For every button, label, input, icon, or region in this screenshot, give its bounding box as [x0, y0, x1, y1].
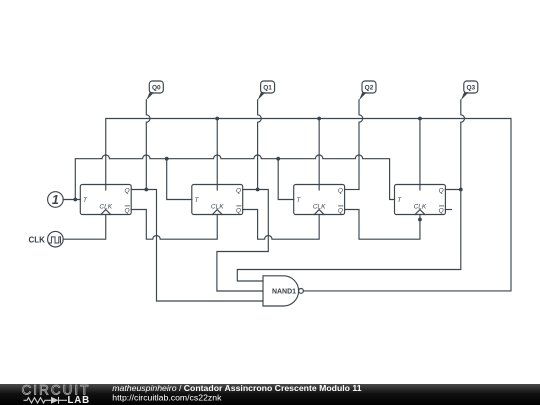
- node dot FF2 top on reset bus: [215, 117, 219, 121]
- wire FF3 Qbar to FF4 clock: [345, 210, 420, 240]
- svg-text:Q: Q: [124, 207, 129, 214]
- wire bus logic-1 (T net, y158.7) with hops: [75, 155, 394, 200]
- wire FF3 Q to Q2 flag: [345, 189, 359, 191]
- svg-text:Q: Q: [338, 207, 343, 214]
- source CLK squarewave: [48, 231, 64, 247]
- node dot FF3 top on reset bus: [317, 117, 321, 121]
- svg-text:Q: Q: [439, 207, 444, 214]
- wire FF4 top riser: [419, 119, 421, 191]
- wire FF2 Qbar to FF3 clock: [243, 210, 319, 240]
- svg-text:Q: Q: [439, 187, 444, 194]
- svg-text:Q: Q: [236, 187, 241, 194]
- wire FF2 top riser: [216, 119, 218, 191]
- node dot FF4 top on reset bus: [418, 117, 422, 121]
- wire FF4 Q to Q3 flag and NAND input C (Q3 net): [237, 190, 460, 282]
- wire FF1 Qbar to FF2 clock: [131, 210, 217, 240]
- flip-flop U1 (T flip-flop): [80, 185, 131, 215]
- svg-text:LAB: LAB: [68, 395, 90, 405]
- logo resistor-diode symbol: [24, 397, 68, 404]
- node dot Q0 flag junction: [144, 188, 148, 192]
- svg-text:Q: Q: [236, 207, 241, 214]
- node dot FF4 clock junction: [418, 218, 422, 222]
- source V1 constant 1: [48, 192, 64, 208]
- gate NAND1: [263, 276, 303, 306]
- wire CLK source to FF1 clock: [63, 215, 106, 240]
- node dot FF2 T riser on bus: [165, 157, 169, 161]
- footer bar: [0, 384, 540, 405]
- svg-text:Q0: Q0: [152, 85, 161, 92]
- wire FF1 Q to Q0 column and NAND input A (Q0 net): [131, 190, 263, 302]
- flag Q0: [146, 81, 163, 100]
- flip-flop U4 (T flip-flop): [395, 185, 446, 215]
- svg-text:CLK: CLK: [29, 236, 46, 245]
- flag Q1: [258, 81, 275, 100]
- wire Q2 flag drop with hop over reset bus: [359, 100, 363, 190]
- svg-text:http://circuitlab.com/cs22znk: http://circuitlab.com/cs22znk: [112, 392, 222, 402]
- node dot Q3 flag junction: [459, 188, 463, 192]
- svg-text:Q: Q: [338, 187, 343, 194]
- node dot Q1 flag junction: [256, 188, 260, 192]
- svg-text:NAND1: NAND1: [272, 288, 296, 295]
- node dot logic-1 to FF1 T: [73, 198, 77, 202]
- svg-text:Q3: Q3: [466, 85, 475, 92]
- wire Q1 flag drop with hop over reset bus: [258, 100, 262, 190]
- flag Q2: [359, 81, 376, 100]
- flip-flop U3 (T flip-flop): [294, 185, 345, 215]
- svg-text:1: 1: [52, 193, 59, 207]
- wire FF4 Qbar stub: [445, 209, 451, 211]
- node dot FF3 T riser on bus: [276, 157, 280, 161]
- wire FF2 Q to Q1 column and NAND input B (Q1 net): [217, 190, 268, 292]
- wire constant 1 to FF1 T: [63, 199, 80, 201]
- svg-text:Q1: Q1: [263, 85, 272, 92]
- svg-text:Q: Q: [124, 187, 129, 194]
- wire FF3 top riser: [318, 119, 320, 191]
- wire FF2 T riser: [167, 159, 192, 200]
- wire FF3 T riser: [278, 159, 294, 200]
- wire Q3 flag drop with hop over reset bus: [461, 100, 465, 190]
- flag Q3: [461, 81, 478, 100]
- wire bus RESET (NAND output net, top bus y118.5): [106, 119, 511, 291]
- flip-flop U2 (T flip-flop): [192, 185, 243, 215]
- svg-text:Q2: Q2: [365, 85, 374, 92]
- wire Q0 flag drop with hop over reset bus: [146, 100, 150, 190]
